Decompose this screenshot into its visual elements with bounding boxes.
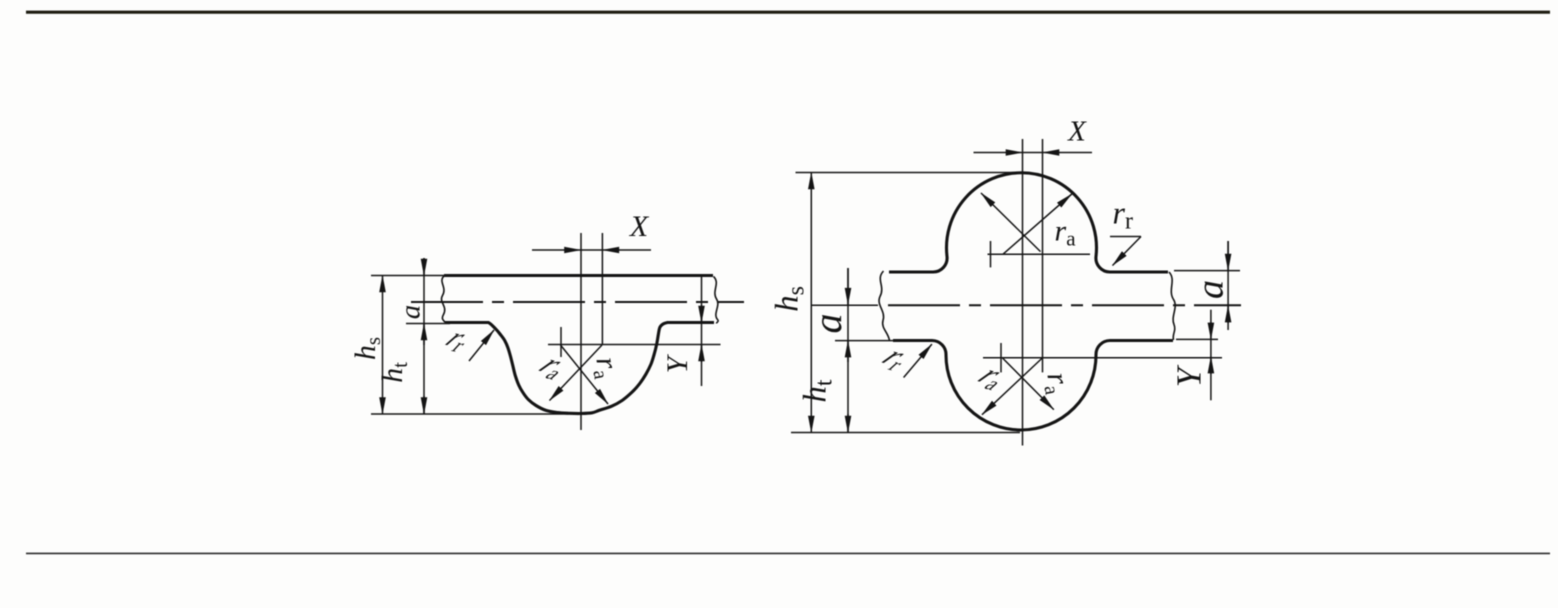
dimension X arrows (right figure) [974,152,1023,154]
right break (wavy) line right figure [1169,272,1175,340]
bottom bulb centers cross horizontal [983,357,1222,359]
extension line a top (right figure left side) [811,304,878,306]
label r_r (left figure) [436,323,481,356]
radius arrow r_a upper-right (top bulb) [1003,194,1072,254]
extension line top (right figure) [796,172,1025,174]
top bulb centers cross horizontal [988,253,1091,255]
svg-text:ra: ra [1037,370,1076,397]
svg-text:X: X [629,210,650,243]
left break (wavy) line right figure [879,271,889,341]
svg-text:a: a [805,314,850,334]
radius arrow r_r (bottom left, right figure) [904,344,932,377]
dimension line h_s [382,276,384,415]
label r_a left (bottom bulb) [968,360,1019,394]
sheet bottom edge left segment [445,321,489,324]
sheet bottom edge right segment [667,321,714,324]
svg-text:hs: hs [349,337,385,360]
svg-text:ht: ht [798,379,838,403]
dimension line a + h_t shared vertical (right figure) [847,268,849,433]
svg-text:ra: ra [586,354,625,381]
horizontal dash-dot centerline (left figure) [411,301,744,303]
label h_s (right figure) [770,286,810,312]
label a (left figure) [395,305,427,320]
dimension line h_s (right figure) [810,173,812,433]
dimension line Y (right figure) [1210,310,1212,401]
bottom bulb outline (right figure) [893,341,1173,431]
svg-text:X: X [1067,116,1087,148]
radius arrow r_a lower-right (bottom bulb) [1003,358,1054,410]
bead bulb outline with fillets (left figure) [489,322,669,413]
bulb center tick [560,327,562,357]
vertical centerline (right figure) [1022,139,1024,446]
svg-text:rr: rr [872,342,921,375]
bottom bulb center tick [1000,343,1002,372]
label Y (left figure) [661,353,694,373]
label r_a left [529,350,580,384]
dimension line Y (left figure) [701,277,703,386]
extension line sheet bottom left (right figure) [835,340,895,342]
right break (wavy) line [714,277,719,324]
svg-text:ht: ht [376,362,412,383]
horizontal dash-dot centerline (right figure) [888,304,1241,306]
top bulb center tick [990,241,992,267]
label h_t (left figure) [376,362,412,383]
svg-text:Y: Y [1170,364,1209,387]
baseline extension bottom (right figure) [791,432,1020,434]
svg-text:ra: ra [529,350,580,384]
baseline extension at bulb bottom [371,413,568,415]
label r_a right (bottom bulb) [1037,370,1076,397]
svg-text:hs: hs [770,286,810,312]
dimension X arrows [532,249,581,251]
radius arrow r_r (left figure) [469,330,494,361]
dimension line a + h_t shared vertical [423,258,425,414]
label h_t (right figure) [798,379,838,403]
svg-text:a: a [395,305,427,320]
radius arrow r_a lower-left (bottom bulb) [982,358,1042,415]
r_r leader arrow (top right) [1113,237,1142,266]
extension line sheet bottom (a) [406,323,450,325]
svg-text:Y: Y [661,353,694,373]
extension line top left [371,275,444,277]
bottom page rule [26,552,1550,554]
label Y (right figure) [1170,364,1209,387]
radius arrow r_a lower-left [550,345,603,401]
extension line sheet top right (right figure) [1174,270,1240,272]
label r_r (bottom left, right figure) [872,342,921,375]
label a (right figure right) [1190,280,1232,299]
svg-text:rr: rr [1113,195,1133,235]
label r_a right [586,354,625,381]
extension line sheet bottom right (right figure) [1176,338,1218,340]
X offset extension line (right figure) [1042,139,1044,372]
top bulb outline (right figure) [889,173,1168,272]
svg-text:rr: rr [436,323,481,356]
dimension line a (right figure right side) [1227,241,1229,330]
label h_s (left figure) [349,337,385,360]
svg-text:a: a [1190,280,1232,299]
radius arrow r_a lower-right [561,345,609,404]
X offset extension line [601,233,603,345]
bulb centers cross horizontal [548,344,721,346]
radius arrow r_a upper-left (top bulb) [981,193,1041,252]
vertical centerline (left figure) [580,233,582,430]
top page rule [26,11,1550,14]
r_r leader shoulder (top right) [1110,236,1141,238]
label a (right figure left) [805,314,850,334]
svg-text:ra: ra [1055,215,1077,251]
sheet top edge (left figure) [444,274,713,277]
left break (wavy) line [441,276,445,323]
